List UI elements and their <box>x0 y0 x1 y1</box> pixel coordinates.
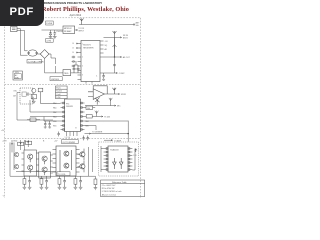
resistor R6 <box>26 141 32 144</box>
svg-text:RA0: RA0 <box>53 102 57 105</box>
diode D2 <box>49 30 51 36</box>
transistor Q3 <box>14 152 18 156</box>
AC source label box <box>13 71 22 80</box>
svg-text:+12V: +12V <box>2 141 7 143</box>
resistor R12 <box>27 118 40 121</box>
U5 right pins <box>81 103 89 130</box>
svg-text:TDA2003: TDA2003 <box>110 148 119 151</box>
label output driver <box>62 140 79 144</box>
U4 left pins <box>76 43 81 80</box>
LED D3 <box>32 89 36 95</box>
U4 pin number labels <box>72 43 83 76</box>
svg-text:TO DRIVER: TO DRIVER <box>92 132 103 134</box>
ground pair 3 <box>58 187 67 189</box>
svg-text:TO AMP: TO AMP <box>114 139 122 142</box>
resistor R2 <box>85 106 96 110</box>
svg-text:R=ohm: R=ohm <box>56 91 62 93</box>
wire stub U4 bottom <box>86 82 92 84</box>
capacitor C13 <box>102 73 105 80</box>
svg-text:AF OUT: AF OUT <box>123 56 131 59</box>
svg-text:1/4W: 1/4W <box>56 97 60 99</box>
MCU bottom pin wires <box>67 132 78 137</box>
audio amp IC U10 <box>108 146 128 172</box>
svg-text:RA1: RA1 <box>53 106 57 109</box>
RC group 1: resistor R7 <box>23 176 26 187</box>
capacitor C1 <box>54 30 57 36</box>
svg-text:IC7805 LM7805 w/ sink: IC7805 LM7805 w/ sink <box>102 191 122 193</box>
RC group 4: resistor R10 <box>74 176 77 187</box>
svg-text:MC3371: MC3371 <box>83 45 91 47</box>
svg-text:C1a .00022 1kV: C1a .00022 1kV <box>102 185 116 187</box>
svg-text:4.7M: 4.7M <box>46 41 51 43</box>
svg-text:PIC: PIC <box>66 103 70 105</box>
MCU U5 <box>65 99 81 132</box>
transistor Q4 <box>14 164 18 168</box>
svg-text:TX 433: TX 433 <box>104 116 110 118</box>
ground for D2 <box>49 37 53 39</box>
svg-text:INPUT: INPUT <box>78 31 85 33</box>
svg-text:10k: 10k <box>87 108 90 110</box>
RC group 4: capacitor C12 <box>79 176 82 187</box>
svg-text:All parts nominal: All parts nominal <box>102 193 117 196</box>
title line 3 (date) <box>70 14 82 17</box>
ground pair 1 <box>23 187 32 189</box>
svg-text:1 2 3 4: 1 2 3 4 <box>65 137 71 139</box>
wire from J1 to transformer <box>17 29 28 56</box>
ground for R1 <box>32 99 36 104</box>
svg-text:15: 15 <box>72 48 74 50</box>
ground pair 2 <box>40 187 49 189</box>
svg-text:RA2: RA2 <box>53 111 57 114</box>
svg-text:14: 14 <box>72 52 74 54</box>
capacitor C3 <box>77 65 80 73</box>
RC group 2: resistor R8 <box>40 176 43 187</box>
connector J1 (AC inlet) <box>11 27 18 32</box>
svg-text:1k: 1k <box>32 97 34 99</box>
voltage regulator U3 <box>63 70 71 76</box>
wire osc to MCU <box>17 93 53 121</box>
wire AF out <box>100 37 131 75</box>
wire bottom bus <box>10 172 95 177</box>
capacitor C6 <box>72 65 76 67</box>
wire left rails <box>10 143 14 177</box>
wire filter rail <box>74 61 78 65</box>
capacitor C4 <box>72 56 76 58</box>
transformer T1 <box>28 50 38 56</box>
svg-text:RF AMP: RF AMP <box>64 30 72 33</box>
antenna AN3 <box>113 88 117 94</box>
wire feedback to driver <box>85 121 129 142</box>
svg-text:~1.: ~1. <box>2 196 5 198</box>
svg-text:LM7805: LM7805 <box>51 79 60 81</box>
capacitor C8 <box>87 136 89 141</box>
capacitor C14 <box>44 121 47 128</box>
antenna AN1 <box>80 18 84 24</box>
RC group 2: capacitor C10 <box>45 176 48 187</box>
capacitor C2 <box>73 65 76 73</box>
svg-text:Reference Table: Reference Table <box>112 182 127 184</box>
svg-text:8: 8 <box>75 128 76 130</box>
wire RX antenna <box>104 35 129 57</box>
U10 right pins <box>128 149 135 171</box>
wire audio out <box>114 93 126 96</box>
svg-text:16: 16 <box>72 43 74 45</box>
inductor L2 on vertical <box>113 45 117 49</box>
label bottom <box>57 172 70 176</box>
net labels across divider <box>2 140 58 143</box>
svg-text:60Hz: 60Hz <box>15 77 19 79</box>
wire badge to U2 <box>42 29 64 31</box>
RC group 3: capacitor C11 <box>63 176 66 187</box>
capacitor C15 <box>48 121 51 128</box>
U10 left pins <box>101 146 108 172</box>
IC U2 (front-end) <box>63 26 75 34</box>
U5 pin pads <box>63 102 82 130</box>
label L1 (fuse label) <box>46 21 54 25</box>
svg-text:ANT2: ANT2 <box>123 37 128 40</box>
svg-text:COMP: COMP <box>119 73 125 75</box>
wires into MCU left <box>30 100 61 121</box>
svg-text:TO COIL: TO COIL <box>58 174 67 176</box>
label U3 value <box>50 77 62 81</box>
RC group 1: capacitor C9 <box>28 176 31 187</box>
U5 left pins <box>53 102 65 130</box>
svg-text:OUT DRIVER: OUT DRIVER <box>62 142 75 144</box>
op-amp U6 <box>88 86 114 105</box>
power flag +12V <box>133 149 137 157</box>
svg-text:RB5: RB5 <box>85 126 89 128</box>
svg-text:RB1: RB1 <box>53 125 57 127</box>
resistor R4 <box>38 88 60 103</box>
svg-text:FUSE: FUSE <box>46 23 52 25</box>
resistor R5 <box>18 142 24 145</box>
svg-text:RECEIVER: RECEIVER <box>83 47 94 49</box>
svg-text:50ft: 50ft <box>136 24 140 27</box>
label L2 <box>46 39 54 43</box>
wire signal drops <box>11 140 29 152</box>
wire regulator output <box>56 66 82 73</box>
label T1 value <box>27 60 44 64</box>
legend box <box>56 86 68 99</box>
amplifier module dashed box <box>99 142 139 176</box>
ground for C1 <box>53 37 57 39</box>
svg-text:R10a 470k 1W: R10a 470k 1W <box>102 188 115 190</box>
svg-text:12.6VAC XFMR: 12.6VAC XFMR <box>28 60 44 63</box>
wire antenna feed <box>79 22 140 27</box>
svg-text:RA3: RA3 <box>53 115 57 118</box>
schematic frame (dashed) <box>5 18 141 198</box>
svg-text:1N4148: 1N4148 <box>56 31 63 33</box>
optocoupler U8 <box>39 152 53 178</box>
svg-text:GND: GND <box>13 141 18 143</box>
wire module input <box>104 139 122 142</box>
svg-text:RB4: RB4 <box>85 121 89 123</box>
capacitor C5 <box>72 60 76 62</box>
wire bridge to regulator <box>45 54 63 73</box>
wire TX data <box>85 111 111 119</box>
ground pair 4 <box>74 187 83 189</box>
notes table <box>101 180 145 197</box>
bridge rectifier D1 <box>37 50 51 59</box>
title line 2 (author, red) <box>42 6 151 13</box>
RC group 3: resistor R9 <box>58 176 61 187</box>
wire U2 output with arrow <box>75 28 85 32</box>
svg-text:SPKR: SPKR <box>121 94 127 96</box>
antenna AN2 <box>113 31 117 37</box>
resistor R1 <box>31 94 36 98</box>
svg-text:16F628: 16F628 <box>66 106 74 108</box>
U4 right pins <box>100 41 109 53</box>
capacitor C7 <box>82 136 84 141</box>
wire lower bus <box>85 98 121 108</box>
svg-text:OSC: OSC <box>13 90 18 92</box>
capacitor C16 <box>57 132 60 137</box>
wire right rails bottom-left <box>89 147 93 176</box>
transistor Q1 <box>78 149 86 161</box>
IC U4 (receiver) <box>81 41 100 82</box>
optocoupler U7 <box>22 150 39 176</box>
svg-text:Parts: Parts <box>56 87 60 90</box>
oscillator module X1 (dashed box) <box>13 88 32 104</box>
driver IC U9 <box>53 146 80 176</box>
U10 pin pads <box>106 148 130 171</box>
PDF badge <box>0 0 44 26</box>
title line 1 <box>40 1 149 5</box>
resistor R11 <box>94 176 98 190</box>
transistor Q2 <box>78 161 86 173</box>
